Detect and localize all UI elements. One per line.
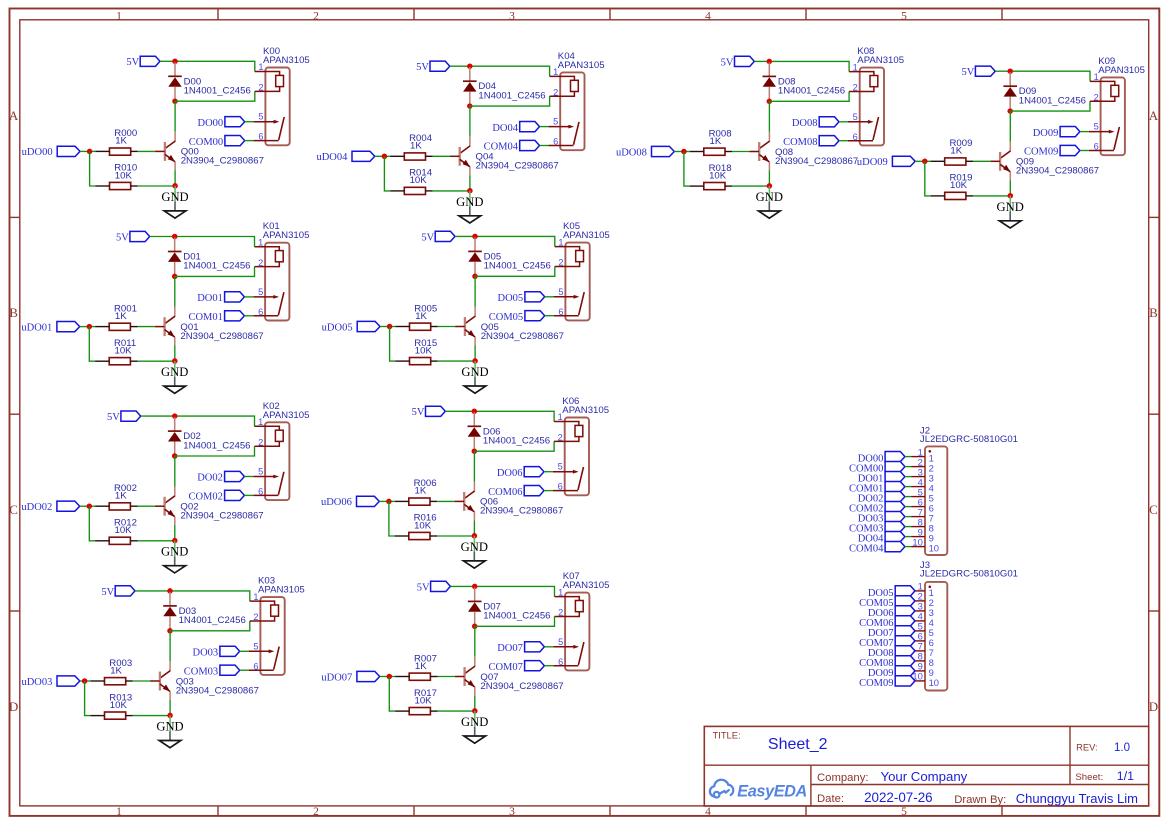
wire uDO06 node down to R016: [389, 501, 395, 536]
wire R016 to emitter node: [437, 535, 474, 537]
svg-text:A: A: [9, 108, 19, 123]
svg-text:APAN3105: APAN3105: [562, 405, 609, 416]
svg-text:1: 1: [558, 412, 563, 422]
svg-text:5: 5: [258, 112, 263, 122]
label R001 1K: [114, 303, 137, 322]
label K06 APAN3105: [562, 396, 609, 416]
svg-text:5: 5: [1094, 122, 1099, 132]
wire DO00 to K00 pin5: [245, 121, 254, 123]
wire COM06 to K06 pin6: [544, 490, 553, 492]
svg-text:10K: 10K: [950, 180, 968, 191]
net flag uDO03: [21, 676, 79, 688]
pin numbers K04: [553, 67, 558, 147]
wire DO00 to J2 pin 1: [905, 456, 912, 458]
svg-text:4: 4: [705, 11, 711, 23]
transistor Q05: [455, 307, 475, 346]
wire 5V rail to K04 pin1: [470, 66, 550, 76]
label R016 10K: [414, 513, 437, 532]
wire COM04 to J2 pin 10: [905, 546, 912, 548]
wire R005 to Q05 base: [438, 326, 455, 328]
svg-text:2N3904_C2980867: 2N3904_C2980867: [181, 156, 264, 167]
pin numbers K01: [258, 237, 263, 317]
net flag uDO02: [21, 501, 79, 513]
svg-text:1K: 1K: [415, 311, 427, 322]
label R014 10K: [409, 168, 433, 187]
svg-text:2N3904_C2980867: 2N3904_C2980867: [481, 331, 564, 342]
pin 9 of J2: [912, 526, 934, 543]
wire D07 node to Q07 collector: [474, 626, 476, 657]
wire R018 to emitter node: [732, 185, 769, 187]
junction emitter/R014/GND: [467, 188, 473, 194]
svg-text:Your Company: Your Company: [881, 769, 968, 784]
wire uDO07 to R007: [380, 676, 395, 678]
wire R010 to emitter node: [138, 185, 175, 187]
resistor R017: [395, 708, 437, 715]
wire node to GND (cell 6): [473, 536, 475, 552]
net flag COM09 (J3): [859, 676, 915, 689]
ground GND (cell 4): [456, 195, 483, 223]
junction 5V/D05: [472, 234, 478, 240]
svg-text:A: A: [1149, 108, 1159, 123]
label D03 1N4001_C2456: [179, 606, 246, 626]
net flag COM07: [488, 661, 544, 673]
wire Q01 emitter to node: [174, 346, 176, 362]
connector J3 body: [925, 582, 947, 691]
svg-text:6: 6: [553, 137, 558, 147]
label R006 1K: [414, 478, 437, 497]
svg-text:1N4001_C2456: 1N4001_C2456: [183, 440, 250, 451]
label R013 10K: [109, 692, 132, 711]
wire Q04 emitter to node: [469, 175, 471, 191]
wire 5V rail to K08 pin1: [769, 61, 849, 71]
svg-text:5: 5: [558, 637, 563, 647]
pin 6 of J3: [915, 631, 934, 648]
diode D02: [168, 417, 182, 456]
svg-text:1: 1: [253, 592, 258, 602]
pin 7 of J3: [915, 641, 934, 658]
svg-text:1N4001_C2456: 1N4001_C2456: [478, 90, 545, 101]
resistor R002: [95, 503, 137, 510]
svg-text:uDO05: uDO05: [322, 322, 353, 333]
svg-text:5: 5: [258, 467, 263, 477]
junction uDO04/R014: [382, 154, 388, 160]
wire uDO06 to R006: [379, 500, 394, 502]
label R017 10K: [414, 688, 437, 707]
wire uDO04 to R004: [375, 155, 390, 157]
net flag uDO09: [857, 156, 915, 168]
svg-text:2N3904_C2980867: 2N3904_C2980867: [480, 506, 563, 517]
svg-text:3: 3: [509, 806, 515, 818]
svg-text:uDO03: uDO03: [21, 677, 52, 688]
transistor Q08: [749, 132, 769, 171]
svg-text:2: 2: [558, 608, 563, 618]
label Q03 2N3904_C2980867: [176, 676, 259, 696]
svg-text:10K: 10K: [110, 700, 128, 711]
svg-text:5: 5: [558, 462, 563, 472]
relay K07: [553, 593, 589, 671]
svg-text:APAN3105: APAN3105: [1098, 65, 1145, 76]
svg-text:1: 1: [258, 62, 263, 72]
wire R009 to Q09 base: [973, 160, 990, 162]
svg-text:1N4001_C2456: 1N4001_C2456: [483, 611, 550, 622]
wire D01 anode to K01 pin2: [175, 267, 255, 277]
pin 10 of J2: [912, 536, 940, 553]
svg-text:APAN3105: APAN3105: [258, 585, 305, 596]
pin 7 of J2: [912, 506, 934, 523]
svg-text:2: 2: [258, 437, 263, 447]
label K04 APAN3105: [558, 51, 605, 71]
diode D00: [168, 62, 182, 101]
wire R004 to Q04 base: [433, 155, 450, 157]
svg-text:2N3904_C2980867: 2N3904_C2980867: [775, 156, 858, 167]
wire 5V rail to K09 pin1: [1010, 71, 1090, 81]
label D07 1N4001_C2456: [483, 601, 550, 621]
junction emitter/R013/GND: [167, 713, 173, 719]
relay K00: [254, 68, 290, 146]
wire uDO03 to R003: [80, 680, 91, 682]
junction 5V/D07: [472, 584, 478, 590]
wire COM02 to J2 pin 6: [905, 506, 912, 508]
wire 5V flag to node (cell 4): [450, 65, 470, 67]
wire DO03 to J2 pin 7: [905, 516, 912, 518]
label D00 1N4001_C2456: [184, 76, 251, 96]
relay K09: [1089, 77, 1125, 155]
net flag COM09: [1024, 145, 1080, 157]
junction uDO01/R011: [87, 324, 93, 330]
junction uDO02/R012: [87, 503, 93, 509]
svg-text:uDO06: uDO06: [321, 497, 352, 508]
svg-text:5V: 5V: [417, 582, 430, 593]
label K08 APAN3105: [857, 46, 904, 66]
label D05 1N4001_C2456: [484, 251, 551, 271]
wire D05 anode to K05 pin2: [475, 267, 555, 277]
svg-text:5: 5: [558, 287, 563, 297]
junction uDO00/R010: [87, 149, 93, 155]
ground GND (cell 9): [997, 200, 1024, 228]
svg-text:6: 6: [853, 132, 858, 142]
wire 5V flag to node (cell 5): [455, 235, 475, 237]
wire 5V rail to K01 pin1: [175, 237, 255, 247]
junction uDO08/R018: [681, 149, 687, 155]
label J2 JL2EDGRC-50810G01: [920, 425, 1018, 445]
wire node to GND (cell 8): [768, 186, 770, 202]
transistor Q07: [455, 657, 475, 696]
svg-text:Chunggyu Travis Lim: Chunggyu Travis Lim: [1016, 791, 1138, 806]
svg-text:2: 2: [258, 83, 263, 93]
wire 5V flag to node (cell 9): [995, 70, 1010, 72]
transistor Q00: [155, 132, 175, 171]
svg-text:2N3904_C2980867: 2N3904_C2980867: [180, 331, 263, 342]
svg-text:uDO00: uDO00: [22, 147, 53, 158]
wire D08 anode to K08 pin2: [769, 92, 849, 102]
wire DO05 to K05 pin5: [545, 296, 554, 298]
wire D00 node to Q00 collector: [174, 101, 176, 132]
label R010 10K: [114, 163, 137, 182]
net flag 5V (cell 2): [107, 411, 141, 423]
wire COM02 to K02 pin6: [244, 494, 253, 496]
junction 5V/D01: [172, 234, 178, 240]
pin numbers K07: [558, 587, 563, 667]
label D02 1N4001_C2456: [183, 431, 250, 451]
pin 1 of J2: [912, 446, 934, 463]
svg-text:6: 6: [1094, 142, 1099, 152]
wire uDO02 node down to R012: [89, 506, 95, 541]
pin numbers K09: [1094, 72, 1099, 152]
diode D09: [1003, 72, 1017, 111]
junction emitter/R015/GND: [472, 358, 478, 364]
svg-text:10: 10: [912, 536, 922, 547]
pin 4 of J2: [912, 476, 934, 493]
wire D05 node to Q05 collector: [474, 276, 476, 307]
svg-text:JL2EDGRC-50810G01: JL2EDGRC-50810G01: [920, 569, 1018, 580]
svg-text:uDO08: uDO08: [616, 147, 647, 158]
svg-text:10K: 10K: [415, 345, 433, 356]
svg-text:Drawn By:: Drawn By:: [954, 794, 1006, 806]
net flag 5V (cell 1): [116, 231, 150, 243]
wire D01 node to Q01 collector: [174, 276, 176, 307]
wire Q00 emitter to node: [174, 170, 176, 186]
svg-text:1K: 1K: [710, 136, 722, 147]
pin 5 of J2: [912, 486, 934, 503]
svg-text:1K: 1K: [410, 141, 422, 152]
net flag COM02: [188, 490, 244, 502]
wire 5V flag to node (cell 8): [754, 60, 769, 62]
pin 3 of J3: [915, 601, 934, 618]
pin 6 of J2: [912, 496, 934, 513]
label Q05 2N3904_C2980867: [481, 322, 564, 342]
wire D06 anode to K06 pin2: [474, 441, 554, 451]
wire D09 node to Q09 collector: [1009, 111, 1011, 142]
resistor R006: [395, 498, 437, 505]
svg-text:DO07: DO07: [497, 643, 523, 654]
wire DO01 to J2 pin 3: [905, 476, 912, 478]
diode D03: [163, 592, 177, 631]
svg-text:6: 6: [253, 661, 258, 671]
label K07 APAN3105: [563, 571, 610, 591]
wire uDO08 to R008: [674, 151, 689, 153]
wire Q02 emitter to node: [174, 525, 176, 541]
wire DO04 to K04 pin5: [540, 126, 549, 128]
svg-text:1: 1: [258, 417, 263, 427]
svg-text:C: C: [9, 502, 18, 517]
svg-text:uDO04: uDO04: [316, 152, 348, 163]
junction emitter/R017/GND: [472, 708, 478, 714]
wire D06 node to Q06 collector: [473, 451, 475, 482]
svg-text:10K: 10K: [709, 170, 727, 181]
net flag DO06: [497, 467, 544, 479]
pin numbers K00: [258, 62, 263, 142]
wire DO07 to K07 pin5: [544, 646, 553, 648]
diode D01: [168, 238, 182, 277]
pin numbers K05: [558, 237, 563, 316]
net flag DO04 (J2): [858, 532, 905, 545]
svg-text:10K: 10K: [115, 170, 133, 181]
wire R007 to Q07 base: [438, 676, 455, 678]
net flag COM00: [189, 136, 245, 148]
wire uDO01 node down to R011: [89, 327, 95, 362]
junction 5V/D02: [172, 413, 178, 419]
wire Q07 emitter to node: [474, 695, 476, 711]
svg-text:10K: 10K: [414, 520, 432, 531]
svg-text:APAN3105: APAN3105: [263, 55, 310, 66]
svg-text:DO02: DO02: [197, 473, 223, 484]
wire COM07 to K07 pin6: [544, 665, 553, 667]
net flag 5V (cell 9): [962, 66, 996, 78]
wire 5V flag to node (cell 3): [135, 590, 170, 592]
svg-text:uDO07: uDO07: [321, 672, 352, 683]
transistor Q03: [150, 661, 170, 700]
svg-text:5V: 5V: [416, 62, 429, 73]
wire D03 anode to K03 pin2: [170, 621, 250, 631]
resistor R007: [395, 673, 437, 680]
svg-text:5V: 5V: [107, 412, 120, 423]
svg-text:5: 5: [258, 287, 263, 297]
wire R012 to emitter node: [138, 540, 175, 542]
wire DO09 to K09 pin5: [1080, 131, 1089, 133]
net flag uDO01: [21, 322, 79, 334]
svg-text:DO03: DO03: [193, 648, 219, 659]
wire node to GND (cell 4): [469, 191, 471, 207]
pin 8 of J3: [915, 651, 934, 668]
junction emitter/R018/GND: [767, 183, 773, 189]
svg-text:2: 2: [313, 11, 319, 23]
label Q07 2N3904_C2980867: [480, 672, 563, 692]
pin 2 of J2: [912, 456, 934, 473]
svg-text:6: 6: [558, 482, 563, 492]
wire R006 to Q06 base: [437, 500, 454, 502]
svg-text:1: 1: [558, 237, 563, 247]
wire Q09 emitter to node: [1009, 180, 1011, 196]
svg-text:1K: 1K: [115, 136, 127, 147]
svg-text:10: 10: [929, 677, 939, 688]
net flag DO04: [492, 122, 539, 134]
svg-text:5: 5: [901, 11, 907, 23]
wire R002 to Q02 base: [138, 505, 155, 507]
net flag 5V (cell 0): [126, 56, 160, 68]
svg-text:1N4001_C2456: 1N4001_C2456: [484, 261, 551, 272]
wire DO04 to J2 pin 9: [905, 536, 912, 538]
svg-text:5V: 5V: [721, 57, 734, 68]
wire D04 node to Q04 collector: [469, 106, 471, 137]
svg-text:1K: 1K: [115, 491, 127, 502]
svg-text:1: 1: [1094, 72, 1099, 82]
junction 5V/D08: [767, 59, 773, 65]
wire D09 anode to K09 pin2: [1010, 101, 1090, 111]
net flag COM06 (J3): [859, 616, 915, 629]
label Q08 2N3904_C2980867: [775, 147, 858, 167]
svg-text:6: 6: [558, 307, 563, 317]
svg-text:1: 1: [258, 237, 263, 247]
wire node to GND (cell 7): [474, 711, 476, 727]
svg-text:DO01: DO01: [197, 293, 223, 304]
wire node to GND (cell 3): [169, 715, 171, 731]
junction D07/K07 pin2: [472, 624, 478, 630]
relay K04: [548, 72, 584, 150]
net flag COM08 (J3): [859, 656, 915, 669]
net flag DO03: [193, 646, 240, 658]
net flag COM08: [783, 136, 839, 148]
label R011 10K: [114, 338, 136, 357]
label J3 JL2EDGRC-50810G01: [920, 560, 1018, 580]
net flag COM05 (J3): [859, 596, 915, 609]
wire R015 to emitter node: [438, 360, 475, 362]
pin 8 of J2: [912, 516, 934, 533]
net flag COM04 (J2): [849, 542, 905, 555]
wire uDO01 to R001: [80, 326, 95, 328]
resistor R016: [395, 532, 437, 539]
svg-text:5V: 5V: [412, 407, 425, 418]
ground GND (cell 2): [161, 545, 188, 573]
net flag 5V (cell 8): [721, 56, 755, 68]
label R008 1K: [709, 128, 732, 147]
ground GND (cell 5): [461, 365, 488, 393]
ground GND (cell 3): [156, 720, 183, 748]
svg-text:5: 5: [901, 806, 907, 818]
svg-text:6: 6: [558, 657, 563, 667]
label D09 1N4001_C2456: [1019, 86, 1086, 106]
wire D04 anode to K04 pin2: [470, 96, 550, 106]
wire 5V rail to K02 pin1: [175, 416, 255, 426]
svg-text:APAN3105: APAN3105: [857, 55, 904, 66]
svg-text:1: 1: [553, 67, 558, 77]
svg-text:1/1: 1/1: [1117, 769, 1134, 783]
svg-text:B: B: [1149, 305, 1158, 320]
diode D06: [468, 412, 482, 451]
net flag COM01: [188, 311, 244, 323]
wire D08 node to Q08 collector: [768, 101, 770, 132]
wire 5V flag to node (cell 2): [141, 415, 175, 417]
svg-text:DO08: DO08: [792, 118, 818, 129]
resistor R010: [95, 182, 137, 189]
net flag uDO07: [321, 671, 379, 683]
svg-text:Sheet_2: Sheet_2: [768, 736, 828, 753]
pin 4 of J3: [915, 611, 934, 628]
svg-text:5V: 5V: [421, 232, 434, 243]
label K05 APAN3105: [563, 221, 610, 241]
svg-text:1N4001_C2456: 1N4001_C2456: [483, 436, 550, 447]
net flag COM02 (J2): [849, 502, 905, 515]
svg-text:1N4001_C2456: 1N4001_C2456: [778, 86, 845, 97]
junction uDO06/R016: [386, 499, 392, 505]
svg-text:Date:: Date:: [817, 793, 844, 805]
svg-text:10: 10: [929, 543, 939, 554]
wire DO02 to J2 pin 5: [905, 496, 912, 498]
resistor R011: [95, 358, 137, 365]
svg-text:10K: 10K: [415, 695, 433, 706]
svg-text:5: 5: [853, 112, 858, 122]
svg-text:6: 6: [258, 307, 263, 317]
svg-text:DO06: DO06: [497, 468, 523, 479]
junction D02/K02 pin2: [172, 453, 178, 459]
diode D08: [763, 62, 777, 101]
resistor R004: [390, 153, 432, 160]
junction D04/K04 pin2: [467, 103, 473, 109]
wire R008 to Q08 base: [732, 151, 749, 153]
label D01 1N4001_C2456: [183, 252, 250, 272]
net flag 5V (cell 6): [412, 406, 446, 418]
wire D07 anode to K07 pin2: [475, 617, 555, 627]
wire node to GND (cell 0): [174, 186, 176, 202]
svg-text:1: 1: [116, 806, 122, 818]
svg-text:2: 2: [558, 258, 563, 268]
net flag DO03 (J2): [858, 512, 905, 525]
wire 5V rail to K07 pin1: [475, 586, 555, 596]
svg-text:5V: 5V: [116, 232, 129, 243]
svg-text:2: 2: [258, 258, 263, 268]
relay K03: [249, 597, 285, 675]
resistor R001: [95, 323, 137, 330]
label D04 1N4001_C2456: [478, 81, 545, 101]
